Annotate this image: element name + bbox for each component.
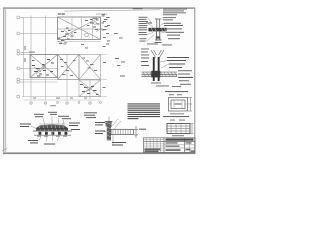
long leader line plan to notes [64,10,160,11]
detail 1 right text rows [164,23,184,39]
detail 4 beam [111,129,134,134]
detail 5 top dim [169,93,182,96]
detail 4 column [108,117,110,122]
detail 4 right dim [134,126,138,138]
detail 4 bottom text [112,135,114,145]
detail 2 horizontal band [142,72,178,77]
grid vertical lines [23,17,25,96]
detail 6 body [167,124,190,134]
detail 1 drawing: hatched band [149,28,167,32]
detail 2 bottom label [151,82,161,85]
grid bubbles bottom [30,102,102,105]
page bottom edge [3,152,195,154]
page sheet [4,8,195,153]
detail 1 drawing: stem below [155,31,162,40]
brace panel D [79,80,101,97]
detail 4 left text [95,122,105,134]
detail 2 pipe bars [153,57,155,81]
small label above panel B [29,52,35,53]
detail 5 right dim ticks [188,98,192,112]
detail 5 title [165,91,188,92]
detail 3 left text [20,124,31,128]
page left edge [3,8,4,152]
detail 4 top leaders [111,119,121,129]
title block small texts [145,142,195,152]
brace panel B [30,54,58,77]
annotation cluster panel E [83,58,98,71]
detail 2 right text lower [178,70,193,84]
detail 3 joist squares [39,132,68,135]
grid horizontal lines [20,16,58,18]
bottom-left corner mark [2,148,7,151]
plan right edge stubs [101,54,108,96]
detail 2 junction block [151,71,160,78]
page right edge [194,8,195,153]
detail 5 body [169,98,188,112]
annotation cluster panel A center [61,28,77,38]
annotation cluster below panel A [57,38,88,49]
detail 6 top dim [170,119,185,122]
page top edge [3,7,195,8]
detail 2 right text upper [167,57,189,68]
bottom dimension marks under plan [33,98,87,107]
brace panel A [58,17,101,40]
detail 1 drawing: post above [155,19,161,28]
sparse marks top-left cells [25,46,26,62]
annotation cluster panel A right [85,16,108,31]
title block doc designation [166,139,194,141]
brace panel C [58,54,79,79]
detail 1 right text leaders [160,23,166,33]
annotation cluster panel C [60,59,76,76]
detail 1 left small text [146,22,152,25]
grid bubbles left [17,16,20,98]
title block [144,138,196,153]
detail 2 funnel [151,50,164,58]
top dimension text [58,13,65,14]
detail 6 title [163,116,189,117]
right strip annotations [102,14,125,88]
detail 3 right text [69,123,80,131]
detail 2 left text [141,58,149,66]
detail 3 mound [40,123,64,125]
annotation cluster panel D [80,84,99,95]
detail 3 top leaders and text [43,116,64,128]
brace panel E [79,54,101,79]
detail 6 side dim [191,124,194,134]
bottom dim line [24,99,101,101]
notes paragraph [128,103,161,119]
annotation cluster panel B [32,59,54,77]
detail 2 top text [141,44,172,56]
detail 3 bottom leaders and text [39,137,59,142]
detail 6 bottom dim [172,134,184,137]
leader note column (left of detail 1) [133,8,149,41]
detail 1 text block top [163,9,187,21]
